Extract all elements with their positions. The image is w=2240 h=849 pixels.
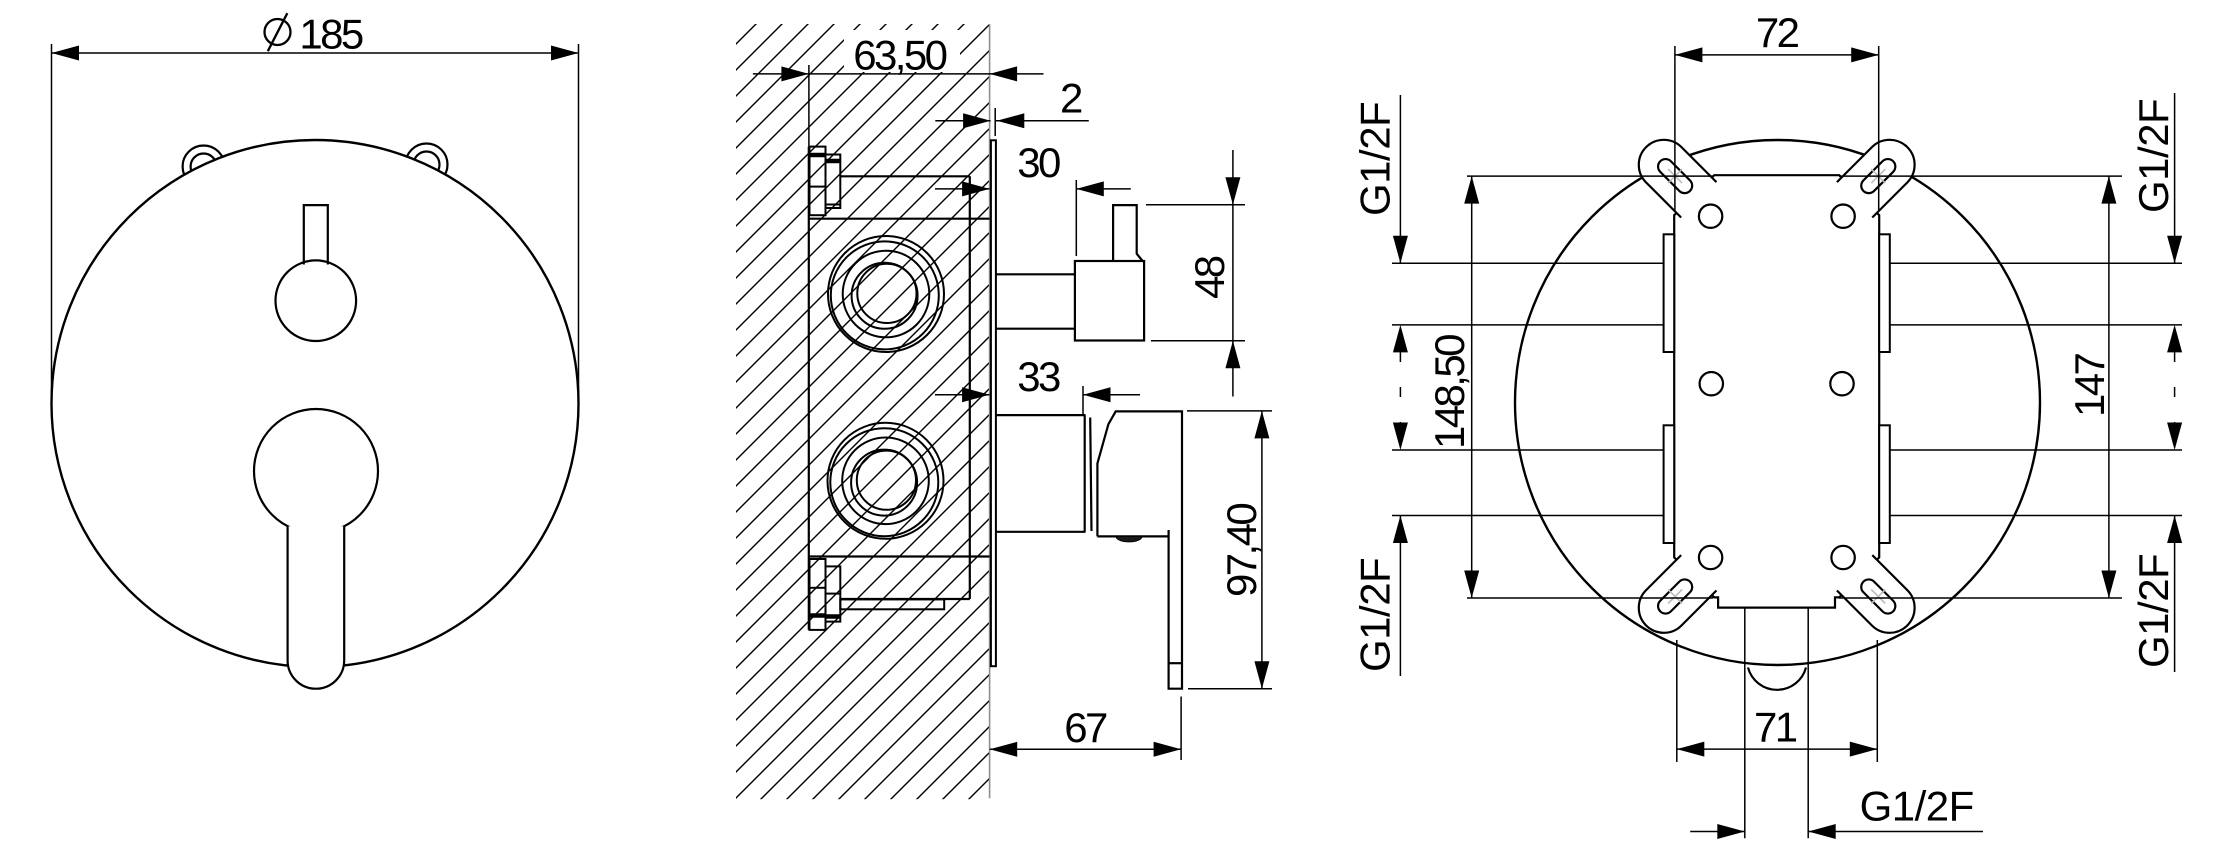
svg-text:148,50: 148,50	[1426, 335, 1473, 449]
shared horizontal extension lines	[1467, 176, 2122, 598]
svg-text:30: 30	[1017, 139, 1060, 186]
dimension 33 lines	[935, 394, 990, 396]
svg-text:G1/2F: G1/2F	[2130, 99, 2177, 213]
side port tabs	[1664, 234, 1890, 543]
dimension 185 line	[52, 52, 579, 54]
dimension 185 extension line right	[578, 44, 580, 403]
corner lug top-right	[1837, 129, 1925, 217]
svg-text:147: 147	[2066, 353, 2113, 417]
diverter knob cylinder	[996, 273, 1075, 275]
svg-text:G1/2F: G1/2F	[1352, 102, 1399, 216]
svg-text:2: 2	[1060, 74, 1082, 121]
diameter symbol	[265, 13, 291, 51]
svg-text:63,50: 63,50	[853, 31, 946, 78]
lever pivot dome	[1116, 536, 1142, 542]
diverter knob stem	[1113, 205, 1143, 261]
dimension 2 arrows	[963, 113, 991, 128]
dimension 48 arrows	[1225, 177, 1240, 205]
lower valve section circles	[828, 423, 944, 539]
upper valve section circles	[828, 236, 944, 352]
dimension G1/2F bottom	[1690, 831, 1745, 833]
escutcheon plate	[991, 140, 996, 666]
dimension 30 arrows	[962, 181, 990, 196]
G1/2F callout bottom-right	[2167, 516, 2182, 544]
dimension 185 extension line left	[51, 44, 53, 403]
screw holes	[1699, 205, 1855, 570]
in-wall unit top edge	[809, 218, 990, 220]
svg-text:72: 72	[1756, 9, 1799, 56]
cartridge housing front face	[969, 176, 971, 599]
in-wall unit back face	[808, 147, 810, 630]
grey x marks	[1668, 169, 1885, 603]
dimension 67 extension	[1180, 697, 1182, 761]
dimension 71	[1676, 640, 1678, 762]
top bracket screw body	[810, 147, 841, 216]
screw head top-left	[183, 146, 225, 188]
corner lug bottom-right	[1837, 555, 1925, 643]
lever body	[1097, 411, 1182, 688]
outlet boss semicircle	[1748, 668, 1806, 690]
corner lug bottom-left	[1628, 555, 1716, 643]
svg-text:71: 71	[1754, 703, 1797, 750]
in-wall unit bottom edge	[809, 555, 990, 557]
dimension 63,50 extension	[808, 65, 810, 150]
cartridge housing top edge	[841, 175, 970, 177]
dimension 97,40 extensions	[1187, 410, 1272, 412]
dimension 67 arrows	[990, 742, 1018, 757]
dimension 67 line	[990, 748, 1181, 750]
dimension 185 arrow left	[52, 46, 80, 61]
dimension 72	[1674, 46, 1676, 212]
svg-text:48: 48	[1186, 256, 1233, 299]
bottom bracket arm	[840, 599, 944, 609]
lever blade tick	[1169, 662, 1182, 664]
dimension 48 line	[1232, 150, 1234, 397]
lever collar rings	[1084, 415, 1086, 532]
cartridge housing bottom edge	[841, 598, 970, 600]
dimension 33 arrows	[962, 387, 990, 402]
screw head top-right	[406, 144, 448, 186]
front plate circle	[52, 140, 579, 667]
dimension 63,50 line	[753, 73, 1044, 75]
dimension 147	[2108, 176, 2110, 598]
port reference lines	[1392, 263, 2182, 515]
diverter stem	[304, 205, 328, 264]
wall surface line	[989, 24, 991, 798]
corner lug top-left	[1628, 129, 1716, 217]
outlet pipe extension lines	[1744, 608, 1746, 839]
diverter knob body	[1075, 261, 1144, 341]
svg-text:67: 67	[1064, 704, 1107, 751]
mixer knob circle	[254, 409, 378, 533]
dimension 2 lines	[935, 120, 990, 122]
dimension 48 extensions	[1146, 204, 1245, 206]
mounting box body	[1674, 175, 1879, 607]
dimension 148,50	[1471, 176, 1473, 598]
svg-text:185: 185	[299, 11, 363, 58]
svg-text:G1/2F: G1/2F	[2130, 554, 2177, 668]
svg-text:G1/2F: G1/2F	[1860, 782, 1974, 829]
G1/2F callout bottom-left	[1393, 516, 1408, 544]
G1/2F port arrows left middle	[1393, 325, 1408, 353]
mixer lever handle	[288, 526, 345, 689]
G1/2F port arrows right middle	[2167, 325, 2182, 353]
wall hatch area	[736, 24, 990, 799]
lever cylinder	[996, 414, 1086, 416]
svg-text:33: 33	[1017, 353, 1060, 400]
dimension 185 arrow right	[551, 46, 579, 61]
rear circle	[1515, 140, 2040, 665]
halo behind 63,50 text	[844, 30, 960, 72]
svg-text:97,40: 97,40	[1218, 504, 1265, 597]
diverter knob circle	[276, 260, 357, 341]
dimension 97,40 arrows	[1254, 411, 1269, 439]
dimension 97,40 line	[1261, 411, 1263, 689]
bottom bracket screw body	[810, 559, 841, 630]
dimension 63,50 arrows	[781, 66, 809, 81]
dimension 30 lines	[935, 188, 990, 190]
svg-text:G1/2F: G1/2F	[1352, 558, 1399, 672]
